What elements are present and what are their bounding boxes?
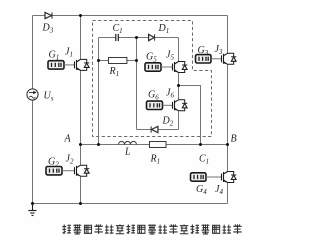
svg-text:J6: J6	[166, 88, 174, 100]
svg-text:C1: C1	[113, 23, 123, 35]
IGBT J2	[75, 165, 90, 176]
junction ground	[31, 202, 34, 205]
svg-text:G4: G4	[196, 184, 207, 196]
IGBT J3	[222, 53, 237, 64]
junction node A	[79, 143, 82, 146]
source Us	[27, 89, 38, 100]
dashed snubber boundary box	[93, 21, 212, 137]
svg-text:C1: C1	[199, 153, 209, 165]
resistor R1 (load, on A-B wire)	[150, 142, 167, 148]
wire: snubber left vertical V2	[98, 38, 100, 145]
wire: C1 top branch	[99, 37, 137, 39]
wire: G2 gate lead	[62, 170, 75, 172]
junction top bus / V1	[79, 14, 82, 17]
junction clamp leg bottom	[199, 143, 202, 146]
junction V2 bottom	[97, 143, 100, 146]
junction C1-D1 node	[135, 36, 138, 39]
wire: G3 gate lead	[211, 58, 222, 60]
gate driver G5	[145, 63, 161, 71]
svg-text:D3: D3	[42, 23, 54, 35]
wire: inner vertical V1 (J1/J2 leg)	[80, 16, 82, 204]
svg-text:D2: D2	[162, 115, 174, 127]
wire: right bus	[227, 16, 229, 204]
wire: G1 gate lead	[64, 64, 75, 66]
junction node B	[226, 143, 229, 146]
svg-text:G1: G1	[49, 49, 60, 61]
IGBT J6	[173, 100, 188, 111]
wire: left bus (source branch)	[32, 16, 34, 204]
svg-text:R1: R1	[150, 153, 161, 165]
svg-text:B: B	[231, 133, 237, 144]
svg-text:R1: R1	[109, 66, 120, 78]
svg-text:G2: G2	[48, 156, 59, 168]
svg-text:J5: J5	[166, 50, 174, 62]
wire: G4 gate lead	[206, 176, 222, 178]
wire: D2 branch	[137, 129, 179, 131]
wire: top bus	[33, 15, 228, 17]
wire: snubber mid vertical V3	[136, 38, 138, 130]
svg-text:A: A	[64, 133, 72, 144]
gate driver G4	[191, 173, 207, 181]
wire: J5 emitter branch to node B leg	[179, 86, 201, 145]
IGBT J1	[75, 59, 90, 70]
junction J5 emitter	[177, 84, 180, 87]
wire: G6 gate lead	[163, 104, 173, 106]
resistor R1 (snubber)	[99, 58, 137, 64]
diode D1	[149, 34, 155, 40]
IGBT J4	[222, 172, 237, 183]
svg-text:J3: J3	[215, 44, 223, 56]
gate driver G3	[196, 55, 212, 63]
junction R1 left	[97, 59, 100, 62]
gate driver G2	[46, 167, 62, 175]
wire: A-B horizontal	[81, 144, 228, 146]
diode D2	[151, 126, 158, 132]
wire: D1 branch to J5 collector	[137, 38, 179, 53]
diode D3	[45, 12, 52, 18]
svg-text:G6: G6	[148, 90, 159, 102]
wire: J5 main vertical	[178, 52, 180, 130]
inductor L	[119, 141, 137, 144]
capacitor C1	[116, 34, 119, 41]
svg-text:J2: J2	[66, 153, 74, 165]
junction R1 right	[135, 59, 138, 62]
svg-text:G5: G5	[146, 52, 157, 64]
wire: G5 gate lead	[161, 66, 173, 68]
gate driver G6	[147, 101, 163, 109]
gate driver G1	[48, 61, 64, 69]
svg-text:J4: J4	[215, 184, 223, 196]
svg-text:D1: D1	[158, 23, 170, 35]
caption: 耗能型准谐振高速关断电路拓扑结构图 (vector pseudo-glyphs)	[62, 224, 241, 234]
wire: bottom bus	[33, 203, 228, 205]
junction V1 bottom	[79, 202, 82, 205]
IGBT J5	[173, 62, 188, 73]
svg-text:J1: J1	[65, 47, 73, 59]
svg-text:G3: G3	[198, 45, 209, 57]
svg-text:Us: Us	[44, 90, 54, 102]
svg-text:L: L	[124, 146, 131, 157]
ground	[28, 204, 36, 216]
